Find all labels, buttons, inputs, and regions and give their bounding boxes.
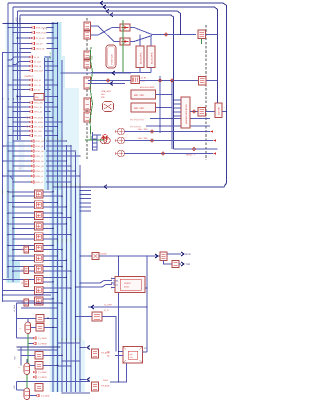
interface connector X9 right xyxy=(199,77,207,86)
wire U9 left top xyxy=(8,266,35,268)
green wire G1 xyxy=(27,334,29,364)
wire U2 left top xyxy=(8,191,35,193)
wire left bus C xyxy=(12,7,14,282)
capacitor C20 xyxy=(172,261,179,268)
wire C31 top xyxy=(26,359,28,363)
wire T1 pin left 2 xyxy=(115,355,123,357)
arrow net4 xyxy=(110,13,113,17)
wire TXD out xyxy=(179,263,181,265)
capacitor C32 xyxy=(24,388,30,400)
fuse F1 xyxy=(120,24,130,31)
wire bus stub right 0 xyxy=(80,190,91,192)
wire G3 vertical xyxy=(16,382,18,391)
svg-text:+5_AUX: +5_AUX xyxy=(13,304,16,312)
diode D65 with label xyxy=(13,165,31,167)
bus name ticks left band xyxy=(2,190,3,194)
interface connector X3 xyxy=(84,51,91,59)
svg-text:GND_OUT: GND_OUT xyxy=(34,70,45,73)
wire net out 281 xyxy=(80,281,112,284)
wire U7 right bottom xyxy=(43,249,62,251)
resistor Rs0 small xyxy=(24,246,29,253)
wire BR1 right xyxy=(140,80,218,82)
mic bus box MB1 xyxy=(131,90,156,99)
red arrow SP4 xyxy=(213,152,216,154)
bus name ticks lower xyxy=(61,338,62,342)
svg-text:+5V0: +5V0 xyxy=(15,18,18,22)
wire row 73 xyxy=(61,72,132,74)
diode D13 with label xyxy=(13,43,32,45)
wire G1 vertical left xyxy=(16,303,18,338)
bus highlight strips middle column xyxy=(50,190,83,392)
wire net1 top loop xyxy=(8,3,227,187)
wire U12 right top xyxy=(43,298,53,300)
svg-text:Reset ↑ ?: Reset ↑ ? xyxy=(186,154,196,157)
wire U6 right top xyxy=(43,234,71,236)
diode D30 row xyxy=(33,337,36,340)
wire serial row xyxy=(80,255,92,257)
svg-text:+5V_OUT: +5V_OUT xyxy=(49,51,52,60)
svg-text:FUSE 5x20: FUSE 5x20 xyxy=(110,53,113,64)
wire CB1 top xyxy=(139,35,141,47)
svg-text:INT_IO: INT_IO xyxy=(34,89,41,92)
svg-text:C_LOAD: C_LOAD xyxy=(38,337,47,340)
bus highlight band left lower xyxy=(7,142,15,282)
wire U9 right bottom xyxy=(43,270,71,272)
wire mid bus 6 xyxy=(70,145,72,392)
wire mid bus 2 xyxy=(52,22,54,392)
interface connector X4 xyxy=(84,60,91,68)
green wire gnd loop A xyxy=(122,20,124,73)
wire bus lower stub 4 xyxy=(62,392,90,394)
svg-text:TO_BUS: TO_BUS xyxy=(101,385,110,388)
wire vertical to module A xyxy=(118,256,120,382)
diode D23 with label xyxy=(13,70,30,72)
resistor Rs2 small xyxy=(24,280,29,287)
wire bus stub right 1 xyxy=(80,194,91,196)
piezo SP3 xyxy=(115,137,124,144)
svg-text:ALMOND GPS RCVR: ALMOND GPS RCVR xyxy=(185,104,188,124)
bus highlight band mid bright upper xyxy=(51,22,62,190)
arrow TO_BUS2 xyxy=(87,378,90,382)
wire R33 xyxy=(30,364,35,366)
svg-text:TO_BUS: TO_BUS xyxy=(101,352,110,355)
svg-text:SPI_MISO: SPI_MISO xyxy=(34,121,44,124)
wire U3 left top xyxy=(8,202,35,204)
wire net out 285 xyxy=(76,285,113,288)
resistor R32 xyxy=(35,352,43,360)
svg-text:115200: 115200 xyxy=(100,253,107,256)
wire MB2 right xyxy=(156,107,173,109)
polyfuse PF1 xyxy=(103,102,114,112)
svg-text:SPI_CE0: SPI_CE0 xyxy=(34,130,43,133)
svg-text:RX /↑: RX /↑ xyxy=(101,93,106,96)
wire serial mid xyxy=(99,255,160,257)
diode D68 with label xyxy=(13,181,31,183)
optocoupler U11 xyxy=(35,286,44,294)
resistor R22 xyxy=(92,312,102,321)
svg-text:GPIO_05: GPIO_05 xyxy=(35,145,44,148)
piezo SP1 xyxy=(115,128,124,135)
resistor R33 xyxy=(35,362,43,370)
diode D42 with label xyxy=(13,111,30,113)
wire mid bus 8 xyxy=(79,165,81,392)
optocoupler U9 xyxy=(35,265,44,273)
svg-text:FM+ / SEL: FM+ / SEL xyxy=(138,137,149,140)
wire R10 right xyxy=(44,96,58,98)
svg-text:rly5: rly5 xyxy=(130,353,133,356)
junction diamond SP1 xyxy=(150,130,154,134)
wire CB bottom rail xyxy=(91,72,151,74)
wire row 83 xyxy=(88,83,125,85)
bus highlight band mid extra strips xyxy=(45,56,50,190)
interface connector X6 xyxy=(84,98,91,110)
wire T1 bottom pin xyxy=(110,363,127,382)
bus highlight small rect D block xyxy=(19,140,25,172)
interface connector X5 xyxy=(84,77,91,89)
optocoupler U7 xyxy=(35,244,44,252)
bus highlight band mid medium upper xyxy=(44,56,51,190)
wire bus horizontal 187 xyxy=(53,186,80,188)
wire G3 rail xyxy=(17,381,91,383)
svg-text:GND: GND xyxy=(19,17,22,22)
svg-text:SCL_IO: SCL_IO xyxy=(34,84,42,87)
wire T1 pin left 1 xyxy=(119,351,124,353)
rfmodule bridge BR1 xyxy=(131,76,140,84)
bus name ticks upper xyxy=(44,138,45,142)
svg-text:FM+ / SEL: FM+ / SEL xyxy=(138,128,149,131)
optocoupler U6 xyxy=(35,233,44,241)
wire bus stub right 4 xyxy=(80,206,91,208)
diode D62 with label xyxy=(8,150,31,152)
optocoupler U8 xyxy=(35,254,44,262)
arrow serial xyxy=(155,254,158,258)
piezo SP2 double xyxy=(100,137,110,143)
wire TO_BUS1 xyxy=(80,347,86,349)
svg-text:MIC / SEL: MIC / SEL xyxy=(134,107,145,110)
wire U5 left bottom xyxy=(13,227,35,229)
resistor R34 xyxy=(35,384,43,392)
arrow net1 bottom xyxy=(104,185,107,189)
svg-text:GPIO_10: GPIO_10 xyxy=(35,170,44,173)
svg-text:ANT 50R: ANT 50R xyxy=(218,107,221,115)
wire U12 right bottom xyxy=(43,302,62,304)
junction diamond BR right A xyxy=(158,79,162,83)
wire FM2 right xyxy=(146,125,210,127)
wire RXD out xyxy=(167,253,181,255)
wire U7 left bottom xyxy=(13,249,35,251)
svg-text:GPIO_09: GPIO_09 xyxy=(35,165,44,168)
diode D14 with label xyxy=(20,48,32,50)
wire TL_ERR xyxy=(88,306,147,308)
diode D21 with label xyxy=(13,62,30,65)
wire top rail A xyxy=(3,23,58,25)
antenna ANT1 xyxy=(215,103,222,118)
svg-text:RXD: RXD xyxy=(186,253,191,256)
junction diamond power xyxy=(164,33,168,37)
junction dots bus 187 xyxy=(52,186,54,188)
resistor Rs1 small xyxy=(24,267,29,274)
interface connector X2 xyxy=(84,31,91,39)
wire PS2 out xyxy=(145,287,147,289)
wire U7 left top xyxy=(8,244,35,246)
wire F1 out xyxy=(130,28,158,35)
diode D34 row xyxy=(36,394,39,397)
wire U4 left bottom xyxy=(13,217,35,219)
svg-text:SPI_SCLK: SPI_SCLK xyxy=(34,126,44,129)
svg-text:C_LOAD: C_LOAD xyxy=(41,395,50,398)
wire U6 right bottom xyxy=(43,238,58,240)
svg-text:SPI_CE1: SPI_CE1 xyxy=(34,135,43,138)
junction diamond antenna xyxy=(192,110,196,114)
wire left bus E xyxy=(19,15,21,140)
wire merged to TVS xyxy=(158,34,196,36)
wire X2 to F1 cross b xyxy=(91,28,121,36)
diode D32 with label xyxy=(13,89,30,91)
diode D64 with label xyxy=(3,160,31,162)
wire left bus A bottom rail xyxy=(3,294,52,296)
bulk cap bank CB1 xyxy=(136,46,144,68)
optocoupler U10 xyxy=(35,276,44,284)
red arrow SP1 xyxy=(210,130,213,132)
wire U8 left top xyxy=(8,255,35,257)
junction diamond SP2 xyxy=(150,139,154,143)
wire TO_BUS2 xyxy=(80,379,86,381)
wire SP1 row xyxy=(125,131,211,133)
wire U9 left bottom xyxy=(13,270,35,272)
svg-text:GPIO_08: GPIO_08 xyxy=(35,160,44,163)
svg-text:C_FREQ: C_FREQ xyxy=(38,376,47,379)
wire SP2 row xyxy=(125,140,214,142)
wire G2 vertical xyxy=(20,347,22,365)
dashed separator line left xyxy=(86,18,88,160)
svg-text:AC/DC: AC/DC xyxy=(124,282,131,285)
wire R30 xyxy=(17,317,37,319)
power module PS2 xyxy=(115,277,145,293)
antenna filter FL1 xyxy=(198,108,206,117)
diode D67 with label xyxy=(3,175,31,177)
green stub RV1 xyxy=(201,39,203,45)
mic bus box MB2 xyxy=(131,103,156,112)
jog left bus lower xyxy=(8,176,13,180)
diode D60 with label xyxy=(13,140,31,142)
bus highlight band left bottom bright xyxy=(8,260,19,282)
diode D32 row xyxy=(33,371,36,374)
diode D50 with label xyxy=(8,117,30,119)
svg-text:GPIO_12: GPIO_12 xyxy=(35,181,44,184)
arrow net2 xyxy=(103,5,106,9)
fuse holder FH1 xyxy=(106,45,116,68)
svg-text:ab: ab xyxy=(12,98,15,100)
svg-text:4/5V BUS WIDE: 4/5V BUS WIDE xyxy=(140,86,155,89)
bulk cap bank CB2 xyxy=(147,46,155,68)
wire G2 rail2 xyxy=(17,349,57,351)
optocoupler U3 xyxy=(35,201,44,209)
svg-text:C_FREQ: C_FREQ xyxy=(38,343,47,346)
wire U8 left bottom xyxy=(13,259,35,261)
wire Rs0 xyxy=(21,249,23,251)
junction diamond row 80.5 xyxy=(106,79,110,83)
wire bus lower stub 3 xyxy=(58,365,72,367)
wire net4 top xyxy=(20,15,174,149)
svg-text:MIC / SEL: MIC / SEL xyxy=(134,94,145,97)
diode D31 row xyxy=(33,342,36,345)
resistor R31 xyxy=(36,324,44,332)
junction diamond reset xyxy=(192,147,196,151)
wire U2 right top xyxy=(43,191,53,193)
wire G1 rail2 xyxy=(21,307,58,309)
diode D52 with label xyxy=(8,126,30,128)
level shifter U20 xyxy=(160,252,167,261)
svg-text:GPIO_A2: GPIO_A2 xyxy=(34,111,43,114)
svg-text:GPIO_04: GPIO_04 xyxy=(35,140,44,143)
wire U6 left top xyxy=(8,234,35,236)
optocoupler U4 xyxy=(35,211,44,219)
wire antenna right xyxy=(222,111,227,113)
svg-text:GPIO_06: GPIO_06 xyxy=(35,150,44,153)
resistor R20 xyxy=(92,253,99,260)
diode D63 with label xyxy=(13,155,31,157)
gps module U30 xyxy=(181,97,190,128)
wire R10 left xyxy=(17,96,34,98)
wire U5 right bottom xyxy=(43,227,53,229)
svg-text:VIN_5V: VIN_5V xyxy=(36,43,44,46)
wire vertical right col B xyxy=(171,81,173,150)
interface connector X1 xyxy=(84,22,91,30)
junction diamond SP4 xyxy=(161,152,165,156)
junction diamond BR right B xyxy=(170,79,174,83)
svg-text:↑: ↑ xyxy=(224,106,225,109)
svg-text:SDA1: SDA1 xyxy=(113,280,119,283)
wire left bus B xyxy=(7,3,9,278)
optocoupler U12 xyxy=(35,297,44,305)
wire Rs1 xyxy=(21,269,23,271)
wire mid bus 5 xyxy=(66,145,68,392)
wire U5 right top xyxy=(43,223,67,225)
wire Rs2 xyxy=(21,282,23,284)
bus highlight band left upper xyxy=(6,22,22,142)
wire U10 left xyxy=(3,279,35,281)
wire C30 top xyxy=(27,318,29,322)
green wire id xyxy=(97,139,104,141)
dashed separator line right xyxy=(205,25,207,160)
wire bus stub right 2 xyxy=(80,198,91,200)
wire mid bus 1 xyxy=(47,58,49,190)
wire reset row xyxy=(174,148,218,150)
svg-text:1u: 1u xyxy=(19,327,21,330)
piezo SP4 xyxy=(115,150,124,157)
svg-text:5V_OUT: 5V_OUT xyxy=(34,61,43,64)
wire U30 pins xyxy=(174,99,182,101)
wire mid bus 3 xyxy=(57,22,59,392)
svg-text:GND_IN: GND_IN xyxy=(34,65,42,68)
arrow TL_ERR xyxy=(91,305,94,309)
wire R22 right xyxy=(102,317,116,352)
svg-text:BULKCAP-A: BULKCAP-A xyxy=(139,52,142,64)
svg-text:1u: 1u xyxy=(18,366,20,369)
wire U7 right top xyxy=(43,244,53,246)
svg-text:FM FMB RAD: FM FMB RAD xyxy=(130,118,145,121)
svg-text:BULKCAP-B: BULKCAP-B xyxy=(150,52,153,64)
wire U11 right bottom xyxy=(43,292,58,294)
diode D66 with label xyxy=(8,170,31,172)
wire U9 right top xyxy=(43,266,62,268)
wire MB1 right xyxy=(156,94,173,96)
wire U5 left top xyxy=(8,223,35,225)
wire antenna row xyxy=(190,111,198,113)
wire CB2 bottom xyxy=(150,68,152,73)
svg-text:GND: GND xyxy=(91,55,94,60)
resistor Rs3 small xyxy=(24,299,29,306)
junction dots top rails xyxy=(7,23,9,25)
transformer module T1 xyxy=(123,347,143,364)
resistor R10 box xyxy=(34,94,44,101)
svg-text:a5: a5 xyxy=(7,98,10,100)
diode D22 with label xyxy=(8,65,30,67)
wire U2 left bottom xyxy=(13,195,35,197)
svg-text:PWR_FLAG: PWR_FLAG xyxy=(36,27,47,30)
diode D33 row xyxy=(33,376,36,379)
wire RV1 right xyxy=(206,34,218,36)
wire G3 low xyxy=(17,389,25,391)
wire U8 right top xyxy=(43,255,58,257)
diode D41 with label xyxy=(8,106,30,108)
wire CB2 top xyxy=(150,36,152,47)
diode D31 with label xyxy=(8,84,30,86)
diode D61 with label xyxy=(3,145,31,147)
arrow row 73 xyxy=(112,71,115,75)
pins PS2 left xyxy=(111,278,115,280)
wire id stubs xyxy=(93,134,98,136)
wire U3 right top xyxy=(43,202,58,204)
svg-text:5V2A: 5V2A xyxy=(124,286,130,289)
wire SP4 row xyxy=(125,153,214,155)
wire left bus D xyxy=(16,11,18,140)
svg-text:USB_WIFI: USB_WIFI xyxy=(101,90,111,93)
wire T1 right pin xyxy=(143,351,148,353)
svg-text:5V_FLAG: 5V_FLAG xyxy=(36,37,45,40)
wire R31 xyxy=(31,326,36,328)
green wire gnd meander xyxy=(90,47,93,140)
optocoupler U5 xyxy=(35,222,44,230)
wire antenna mid xyxy=(206,111,216,113)
wire U8 right bottom xyxy=(43,259,67,261)
svg-text:GPIO_11: GPIO_11 xyxy=(35,175,44,178)
svg-text:+5VOUT: +5VOUT xyxy=(24,75,34,78)
wire X1 to F2 cross a xyxy=(91,26,121,42)
wire U3 left bottom xyxy=(13,206,35,208)
wire G2 rail xyxy=(17,346,61,348)
arrow RXD xyxy=(181,252,184,256)
diode D20 with label xyxy=(8,57,30,60)
wire mid bus 4 xyxy=(61,60,63,392)
wire net3 top xyxy=(17,11,180,34)
svg-text:GPIO_A1: GPIO_A1 xyxy=(34,106,43,109)
svg-text:SPI_MOSI: SPI_MOSI xyxy=(34,117,44,120)
wire CB1 bottom xyxy=(139,68,141,73)
wire U11 right top xyxy=(43,287,71,289)
wire left bus A top corner xyxy=(3,52,32,54)
bus highlight band lower middle xyxy=(59,340,85,392)
red arrow SP2 xyxy=(213,139,216,141)
wire id loop xyxy=(93,132,102,150)
wire bus stub right 5 xyxy=(80,210,91,212)
wire FM1 right xyxy=(150,118,210,120)
diode D53 with label xyxy=(13,130,30,132)
interface connector X7 xyxy=(84,112,91,122)
green wire SP row xyxy=(85,139,97,141)
svg-text:SDA_IO: SDA_IO xyxy=(34,79,42,82)
svg-text:SCL1: SCL1 xyxy=(113,284,119,287)
